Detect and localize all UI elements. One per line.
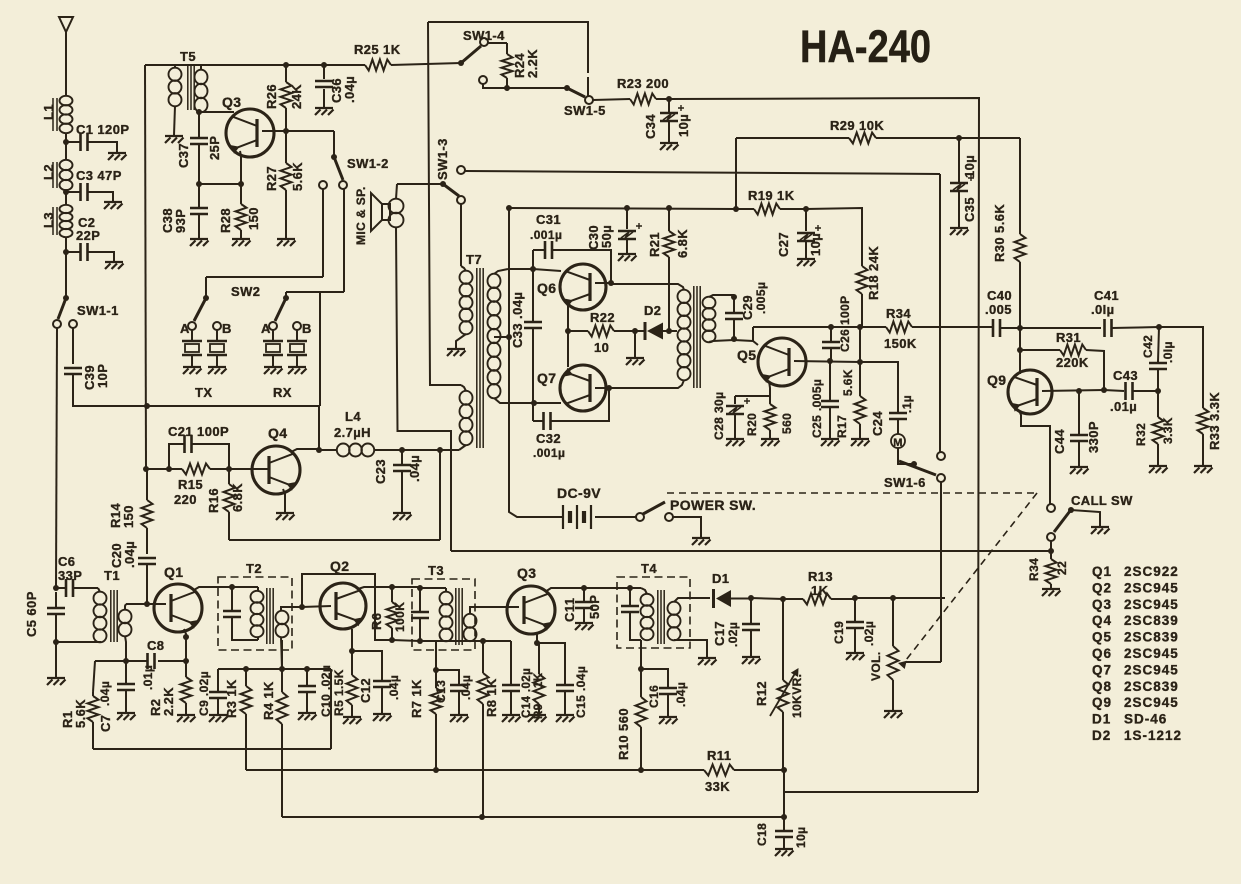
resistor R5	[332, 651, 358, 716]
wire	[860, 362, 898, 412]
svg-text:.02µ: .02µ	[862, 621, 876, 646]
svg-text:2.7µH: 2.7µH	[334, 425, 371, 440]
svg-text:150K: 150K	[884, 336, 917, 351]
svg-text:HA-240: HA-240	[800, 21, 931, 72]
resistor R15	[169, 464, 229, 508]
node	[123, 658, 129, 664]
svg-text:SW1-5: SW1-5	[564, 103, 606, 118]
wire	[640, 640, 642, 669]
transformer T3	[420, 588, 519, 645]
ground	[373, 714, 392, 721]
wire	[229, 468, 269, 470]
resistor R33	[1198, 392, 1223, 465]
node	[1017, 325, 1023, 331]
wire	[859, 327, 861, 362]
capacitor C18	[755, 817, 808, 848]
svg-text:Q9: Q9	[1092, 695, 1112, 710]
svg-text:2SC945: 2SC945	[1124, 662, 1179, 677]
wire	[194, 587, 232, 590]
node	[196, 109, 202, 115]
potentiometer R12	[754, 599, 804, 770]
wire	[396, 184, 443, 199]
node	[321, 62, 327, 68]
diode D2	[635, 303, 677, 340]
svg-text:R22: R22	[590, 310, 615, 325]
svg-text:SW1-6: SW1-6	[884, 475, 926, 490]
wire	[206, 276, 323, 278]
svg-text:C19: C19	[832, 621, 846, 644]
crystal TX-A	[182, 330, 202, 366]
svg-text:C3 47P: C3 47P	[76, 168, 122, 183]
node	[144, 403, 150, 409]
svg-text:220K: 220K	[1056, 355, 1089, 370]
wire	[794, 361, 860, 362]
resistor R3	[224, 669, 252, 770]
wire	[302, 606, 331, 607]
svg-text:Q5: Q5	[1092, 630, 1112, 645]
wire	[735, 395, 770, 397]
wire	[199, 183, 241, 185]
ground	[117, 713, 136, 720]
svg-text:T5: T5	[180, 49, 196, 64]
svg-text:C37: C37	[176, 143, 191, 168]
svg-text:Q4: Q4	[1092, 613, 1112, 628]
svg-text:R34: R34	[886, 306, 911, 321]
transistor Q4	[252, 425, 300, 494]
svg-text:VOL.: VOL.	[869, 651, 883, 681]
capacitor C36	[315, 65, 357, 107]
transistor Q5	[737, 338, 806, 386]
svg-text:R10 560: R10 560	[616, 708, 631, 760]
capacitor C25	[810, 361, 839, 438]
svg-text:5.6K: 5.6K	[841, 369, 855, 396]
svg-text:93P: 93P	[173, 209, 188, 233]
resistor R8	[478, 641, 500, 817]
svg-text:R26: R26	[264, 84, 279, 109]
ground	[177, 715, 196, 722]
capacitor C33	[510, 269, 542, 421]
svg-text:C28 30µ: C28 30µ	[712, 392, 726, 440]
svg-text:C18: C18	[755, 823, 769, 846]
wire	[218, 668, 331, 670]
svg-text:R5 1.5K: R5 1.5K	[332, 669, 346, 716]
wire rail SPK	[451, 550, 1051, 552]
svg-text:10µ: 10µ	[962, 155, 977, 178]
wire	[229, 539, 440, 541]
switch SW1-3	[435, 138, 465, 204]
wire	[184, 629, 186, 661]
node	[890, 595, 896, 601]
resistor R19	[736, 188, 806, 215]
capacitor C35	[950, 138, 977, 227]
wire	[751, 598, 783, 599]
node	[433, 667, 439, 673]
ground	[528, 715, 547, 722]
svg-text:R20: R20	[745, 413, 759, 436]
ground	[556, 715, 575, 722]
svg-text:Q4: Q4	[268, 425, 287, 441]
ground	[277, 239, 296, 246]
svg-text:R19 1K: R19 1K	[748, 188, 795, 203]
ground	[1070, 467, 1089, 474]
capacitor C16	[641, 669, 688, 716]
svg-text:R15: R15	[178, 477, 203, 492]
wire	[509, 208, 563, 517]
wire loop	[302, 574, 392, 640]
node	[53, 585, 59, 591]
node	[144, 601, 150, 607]
ground	[450, 715, 469, 722]
switch CALL SW	[1047, 493, 1133, 541]
svg-text:C8: C8	[147, 638, 164, 653]
dashed link	[667, 493, 1037, 660]
svg-text:1S-1212: 1S-1212	[1124, 728, 1182, 743]
resistor R20	[745, 396, 794, 438]
node	[857, 359, 863, 365]
wire	[232, 586, 258, 588]
node	[857, 324, 863, 330]
svg-text:R33 3.3K: R33 3.3K	[1207, 392, 1222, 450]
svg-text:T3: T3	[428, 563, 444, 578]
wire	[330, 669, 332, 749]
node	[748, 595, 754, 601]
capacitor C9	[197, 669, 227, 716]
ground	[183, 367, 202, 374]
node	[632, 328, 638, 334]
node	[349, 648, 355, 654]
node	[506, 205, 512, 211]
ground	[660, 143, 679, 150]
svg-text:6.8K: 6.8K	[675, 229, 690, 258]
svg-text:Q2: Q2	[1092, 580, 1112, 595]
ground	[692, 538, 711, 545]
capacitor C29	[725, 282, 768, 339]
node	[638, 767, 644, 773]
node	[1155, 388, 1161, 394]
svg-text:B: B	[222, 321, 232, 336]
capacitor C5	[24, 591, 65, 642]
svg-text:.04µ: .04µ	[407, 455, 422, 482]
wire	[508, 268, 533, 270]
ground	[209, 715, 228, 722]
svg-text:R13: R13	[808, 569, 833, 584]
node	[433, 767, 439, 773]
ground	[232, 239, 251, 246]
svg-text:C23: C23	[373, 459, 388, 484]
svg-text:A: A	[180, 321, 190, 336]
ground	[190, 239, 209, 246]
svg-text:10KVR.: 10KVR.	[790, 674, 804, 718]
svg-text:R17: R17	[835, 415, 849, 438]
svg-text:2SC839: 2SC839	[1124, 630, 1179, 645]
wire	[291, 449, 319, 452]
svg-text:C26 100P: C26 100P	[838, 295, 852, 352]
ground	[447, 349, 466, 356]
resistor R6	[369, 587, 407, 640]
wire	[595, 387, 609, 389]
svg-text:R6: R6	[369, 613, 384, 630]
wire	[752, 327, 754, 341]
wire	[322, 189, 324, 277]
diode D1	[712, 571, 751, 608]
resistor R16	[206, 469, 245, 540]
label TX	[195, 385, 212, 400]
capacitor C32	[533, 388, 609, 460]
resistor R27	[264, 131, 305, 238]
capacitor C39	[64, 364, 110, 390]
svg-text:33P: 33P	[58, 568, 82, 583]
node	[624, 205, 630, 211]
wire	[392, 640, 420, 641]
ground	[298, 713, 317, 720]
svg-text:Q1: Q1	[164, 564, 183, 580]
capacitor T2 tune	[223, 587, 258, 640]
ground	[264, 367, 283, 374]
svg-text:C41: C41	[1094, 288, 1119, 303]
ground	[851, 439, 870, 446]
svg-text:R3 1K: R3 1K	[224, 679, 239, 718]
resistor R9	[533, 643, 545, 719]
resistor R21	[647, 208, 690, 331]
svg-text:C27: C27	[776, 232, 791, 257]
svg-text:R21: R21	[647, 232, 662, 257]
wire rail B2	[509, 208, 862, 265]
svg-text:25P: 25P	[207, 136, 222, 160]
svg-text:2.2K: 2.2K	[525, 49, 540, 78]
wire	[65, 237, 67, 297]
node	[956, 135, 962, 141]
svg-text:2SC945: 2SC945	[1124, 580, 1179, 595]
inductor L4	[319, 409, 459, 457]
svg-text:C6: C6	[58, 554, 75, 569]
switch SW1-6	[884, 448, 945, 490]
ground	[797, 259, 816, 266]
capacitor C11	[562, 588, 602, 622]
battery DC-9V	[557, 485, 637, 529]
node	[437, 447, 443, 453]
capacitor C12	[352, 651, 401, 713]
svg-text:.005µ: .005µ	[754, 282, 768, 314]
ground	[884, 711, 903, 718]
node	[534, 640, 540, 646]
svg-text:D1: D1	[1092, 712, 1111, 727]
node	[166, 466, 172, 472]
svg-text:C1 120P: C1 120P	[76, 122, 129, 137]
capacitor C3	[66, 168, 122, 201]
svg-text:RX: RX	[273, 385, 292, 400]
node	[279, 666, 285, 672]
svg-text:330P: 330P	[1086, 421, 1101, 453]
capacitor C23	[373, 450, 422, 512]
resistor R14	[108, 469, 153, 554]
ground	[104, 202, 123, 209]
node	[1076, 388, 1082, 394]
node	[504, 85, 510, 91]
svg-text:C13: C13	[434, 680, 448, 703]
svg-text:R7 1K: R7 1K	[409, 679, 424, 718]
wire	[483, 84, 567, 88]
capacitor C38	[160, 184, 208, 238]
resistor R30	[992, 138, 1026, 328]
node	[183, 658, 189, 664]
node	[417, 585, 423, 591]
wire	[56, 641, 101, 643]
wire	[1019, 410, 1050, 504]
svg-text:SW1-2: SW1-2	[347, 156, 389, 171]
resistor R4	[261, 640, 288, 817]
svg-text:.04µ: .04µ	[98, 681, 112, 706]
node	[63, 249, 69, 255]
svg-text:C24: C24	[870, 411, 885, 436]
capacitor C31	[530, 212, 611, 282]
svg-text:SW1-4: SW1-4	[463, 28, 505, 43]
svg-text:C12: C12	[358, 678, 373, 703]
wire	[262, 130, 334, 132]
node	[243, 666, 249, 672]
switch SW2b	[261, 292, 312, 336]
node	[479, 814, 485, 820]
wire	[439, 450, 441, 540]
svg-text:C44: C44	[1052, 429, 1067, 454]
svg-text:150: 150	[246, 207, 261, 230]
capacitor C30	[586, 208, 642, 253]
resistor R31	[1020, 330, 1104, 390]
svg-text:R27: R27	[264, 166, 279, 191]
resistor R1	[60, 661, 99, 749]
wire rail B1	[145, 63, 461, 65]
svg-text:T1: T1	[104, 568, 120, 583]
capacitor C34	[643, 99, 691, 142]
svg-text:.04µ: .04µ	[674, 682, 688, 707]
ground	[1042, 589, 1061, 596]
ground	[742, 657, 761, 664]
svg-text:SW1-1: SW1-1	[77, 303, 119, 318]
capacitor C24	[870, 395, 914, 436]
wire	[465, 171, 940, 174]
wire	[1050, 541, 1052, 559]
node	[827, 358, 833, 364]
svg-text:24K: 24K	[289, 84, 304, 109]
svg-text:.0Iµ: .0Iµ	[1161, 341, 1175, 363]
svg-text:.001µ: .001µ	[533, 446, 565, 460]
resistor R17	[835, 362, 866, 438]
node	[1156, 324, 1162, 330]
ground	[343, 717, 362, 724]
svg-text:2SC945: 2SC945	[1124, 646, 1179, 661]
transistor Q9	[987, 328, 1052, 414]
wire	[753, 326, 860, 328]
wire	[734, 340, 758, 345]
ground	[315, 108, 334, 115]
switch SW1-4	[458, 28, 505, 84]
capacitor C15	[537, 643, 588, 718]
node	[238, 181, 244, 187]
wire	[533, 269, 561, 271]
node	[316, 447, 322, 453]
switch SW1-1	[53, 295, 119, 328]
node	[53, 639, 59, 645]
svg-text:R29 10K: R29 10K	[830, 118, 884, 133]
antenna	[59, 17, 73, 96]
svg-text:POWER SW.: POWER SW.	[670, 497, 756, 513]
svg-text:R16: R16	[206, 488, 221, 513]
node	[1101, 387, 1107, 393]
wire	[587, 77, 589, 96]
wire	[634, 331, 636, 357]
svg-text:2SC945: 2SC945	[1124, 695, 1179, 710]
node	[565, 328, 571, 334]
svg-text:22: 22	[1055, 561, 1069, 575]
svg-text:10: 10	[594, 340, 609, 355]
capacitor C13	[434, 670, 473, 714]
ground	[1091, 527, 1110, 534]
wire	[73, 374, 319, 406]
node	[531, 400, 537, 406]
svg-text:Q9: Q9	[987, 372, 1006, 388]
capacitor T4 tune	[621, 588, 641, 640]
svg-text:C40: C40	[987, 288, 1012, 303]
node	[828, 324, 834, 330]
svg-text:T2: T2	[246, 561, 262, 576]
capacitor C8	[95, 638, 186, 690]
svg-text:220: 220	[174, 492, 197, 507]
svg-text:2SC922: 2SC922	[1124, 564, 1179, 579]
svg-text:50µ: 50µ	[599, 225, 614, 248]
resistor R29	[736, 118, 1020, 144]
ground	[698, 658, 717, 665]
ground	[47, 678, 66, 685]
svg-text:2SC945: 2SC945	[1124, 597, 1179, 612]
wire	[669, 98, 979, 792]
node	[852, 595, 858, 601]
node	[226, 466, 232, 472]
resistor R22	[568, 310, 635, 355]
node	[666, 328, 672, 334]
wire	[595, 282, 611, 284]
speaker MIC-SP	[354, 186, 404, 245]
svg-text:R8 1K: R8 1K	[484, 678, 499, 717]
wire	[56, 328, 57, 588]
wire	[283, 489, 285, 512]
node	[627, 585, 633, 591]
svg-text:Q3: Q3	[517, 565, 536, 581]
wire	[65, 190, 67, 205]
wire	[460, 204, 462, 266]
ground	[626, 358, 645, 365]
wire	[72, 328, 74, 364]
capacitor C6	[56, 554, 98, 597]
ground	[775, 849, 794, 856]
svg-text:D2: D2	[1092, 728, 1111, 743]
svg-text:Q6: Q6	[537, 280, 556, 296]
svg-text:R32: R32	[1134, 423, 1148, 446]
node	[304, 666, 310, 672]
svg-text:10µ: 10µ	[794, 827, 808, 848]
svg-text:.01µ: .01µ	[141, 665, 155, 690]
resistor R11	[641, 748, 784, 794]
node	[731, 294, 737, 300]
ground	[108, 153, 127, 160]
resistor R18	[857, 246, 882, 327]
transformer T2 box	[218, 561, 292, 650]
resistor R28	[218, 184, 261, 238]
svg-text:C15 .04µ: C15 .04µ	[574, 666, 588, 718]
svg-text:SW2: SW2	[231, 284, 260, 299]
svg-text:6.8K: 6.8K	[230, 483, 245, 512]
ground	[618, 254, 637, 261]
wire	[939, 174, 941, 452]
capacitor C43	[1104, 368, 1158, 414]
